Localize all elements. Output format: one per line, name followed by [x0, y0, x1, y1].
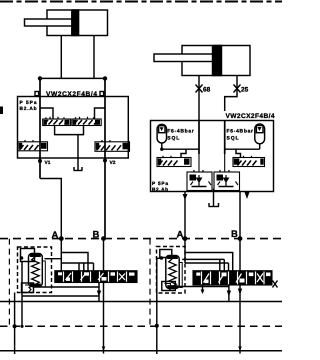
node A1	[59, 236, 64, 241]
svg-text:V2: V2	[110, 160, 116, 166]
frame dash-dot left	[8, 239, 10, 327]
wire down to block V2	[104, 78, 106, 238]
wire CY1 port B	[93, 36, 95, 79]
dash-dot line AB	[0, 238, 282, 240]
node on dash-dot	[13, 324, 17, 328]
staircase left	[181, 149, 186, 157]
wire CY2 port B with jog	[225, 76, 237, 112]
top dashed border	[0, 1, 282, 3]
wire A2 down	[184, 239, 186, 263]
wire B1 down	[103, 239, 105, 354]
rail bottom	[0, 350, 282, 352]
cylinder CY2 rod	[154, 54, 213, 62]
drain hook arrow left	[98, 283, 100, 302]
svg-text:25: 25	[241, 87, 249, 94]
svg-text:SQL: SQL	[167, 135, 179, 141]
node V2 dot	[103, 159, 107, 163]
wire CY1 port A	[60, 36, 62, 79]
cylinder CY2 body	[182, 46, 250, 76]
svg-text:F6-4Bbar: F6-4Bbar	[227, 128, 254, 134]
port square a	[35, 92, 39, 96]
wire left col 1	[14, 293, 16, 355]
wire box to hook right	[175, 286, 229, 288]
node on dash-dot right	[155, 324, 159, 328]
svg-text:B: B	[231, 229, 238, 240]
pilot box drain arrow right	[162, 282, 176, 291]
throttle X 68	[196, 85, 203, 93]
pilot loop left	[61, 253, 88, 271]
node B2	[238, 236, 243, 241]
manifold block 1 outline	[18, 97, 129, 159]
wire header left	[40, 77, 105, 79]
svg-text:VW2CX2F4B/4: VW2CX2F4B/4	[46, 91, 97, 98]
wire port line into block	[224, 121, 226, 155]
svg-text:SQL: SQL	[227, 135, 239, 141]
cartridge valve right	[166, 256, 182, 289]
pilot box left	[21, 249, 35, 262]
pilot routing right	[185, 253, 233, 271]
wire B2 down	[239, 239, 241, 354]
svg-text:68: 68	[203, 87, 211, 94]
port square b	[100, 92, 104, 96]
node V1 dot	[38, 159, 42, 163]
wire right col 1	[156, 258, 158, 354]
wire box to hook	[34, 286, 100, 288]
rail dash-dot	[0, 325, 282, 327]
svg-text:VW2CX2F4B/4: VW2CX2F4B/4	[226, 113, 275, 120]
wire CY2 port A	[198, 76, 200, 121]
node B1	[101, 236, 106, 241]
branch B to valve	[95, 108, 106, 119]
accumulator left	[157, 124, 166, 143]
node dot left	[38, 76, 42, 80]
pilot header right	[225, 148, 260, 150]
relief valve lower left	[18, 140, 48, 151]
wire A jog	[40, 179, 61, 239]
rail P line	[0, 301, 282, 303]
drain line center	[77, 135, 79, 171]
check valve square left	[187, 154, 212, 191]
relief valve lower right	[95, 140, 130, 151]
cylinder CY2 piston	[213, 46, 222, 76]
branch A to valve	[40, 108, 53, 119]
pilot header left	[162, 148, 199, 150]
left edge mark	[0, 107, 3, 115]
inner dashed box left	[18, 247, 52, 293]
relief valve row left	[157, 156, 191, 167]
inner dashed box right	[157, 247, 186, 294]
cylinder CY1 piston	[72, 10, 79, 36]
manifold block 2 outline	[151, 121, 274, 192]
node dot right	[103, 76, 107, 80]
relief valve row right	[233, 156, 265, 167]
throttle X 25	[234, 85, 241, 93]
frame dash-dot right	[149, 239, 151, 326]
svg-text:A: A	[177, 230, 184, 241]
pilot box right	[160, 250, 172, 258]
tank under block2	[213, 189, 215, 207]
wire T line	[22, 295, 99, 297]
stub header	[61, 262, 93, 264]
pilot box drain arrow	[22, 283, 34, 293]
accumulator right	[255, 124, 265, 144]
accumulator stems	[161, 143, 163, 149]
wire left col 2	[21, 262, 23, 326]
svg-text:B2.Ab: B2.Ab	[20, 106, 37, 112]
svg-text:F6-4Bbar: F6-4Bbar	[167, 128, 194, 134]
staircase right	[236, 149, 241, 157]
cartridge valve left	[29, 254, 46, 288]
valve drain bracket	[55, 126, 84, 135]
check valve square right	[214, 154, 240, 191]
node A2	[183, 236, 188, 241]
pilot line to A1	[45, 258, 62, 260]
counterbalance valve right	[72, 117, 101, 126]
arrow B1 end	[102, 347, 106, 352]
svg-text:P 5Pa: P 5Pa	[20, 100, 37, 106]
block2 bottom exits	[184, 192, 186, 239]
counterbalance valve left	[43, 117, 71, 126]
directional valve DV2	[193, 271, 278, 288]
svg-text:B2.Ab: B2.Ab	[152, 187, 168, 193]
tank under block1	[74, 167, 83, 171]
wire A1 down	[60, 239, 62, 271]
svg-text:V1: V1	[45, 160, 51, 166]
cylinder CY1 rod	[25, 19, 72, 26]
stub header right	[185, 262, 229, 264]
cylinder CY1 body	[47, 10, 108, 36]
svg-text:P 5Pa: P 5Pa	[152, 181, 168, 187]
directional valve DV1	[55, 271, 137, 283]
node dot	[160, 256, 164, 260]
node dot	[20, 256, 24, 260]
wire down to block V1	[39, 78, 41, 178]
arrow B2 end	[238, 347, 242, 352]
drain hook arrow right	[228, 285, 230, 302]
drain stub under DV2 left	[202, 285, 204, 293]
